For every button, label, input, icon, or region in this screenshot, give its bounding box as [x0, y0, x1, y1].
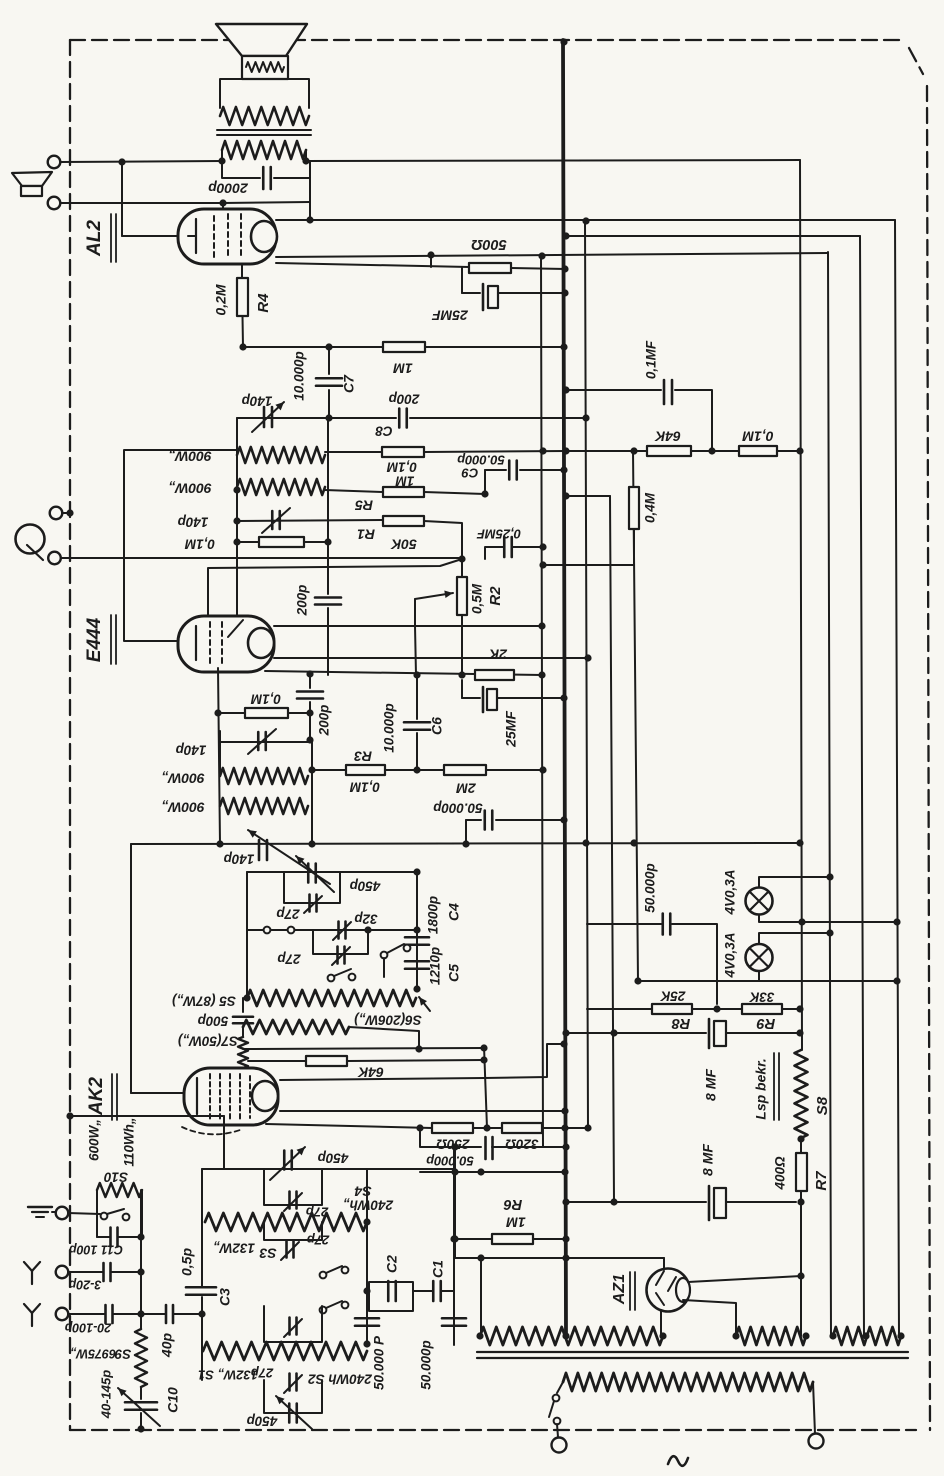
trimmer 140p row3: [248, 729, 276, 754]
capacitor C9 50000p branch: [485, 470, 564, 494]
node lamp1: [798, 918, 900, 925]
svg-text:27p: 27p: [276, 906, 300, 921]
label 320ohm: [505, 1136, 539, 1151]
switch osc pair2: [381, 944, 411, 958]
svg-text:0,5M: 0,5M: [470, 583, 485, 614]
svg-text:S8: S8: [814, 1096, 831, 1115]
capacitor 2000p: [263, 167, 271, 189]
label C6: [429, 717, 445, 735]
terminal antenna 1: [56, 1266, 69, 1279]
label 8MF no1: [703, 1069, 719, 1101]
label 10.000p: [292, 351, 307, 401]
label 450p band1: [318, 1150, 350, 1165]
svg-text:6975W„: 6975W„: [70, 1347, 116, 1361]
label 240Wh S4: [343, 1197, 394, 1212]
wire AL2 nose line y257: [276, 253, 828, 257]
node 2000p anode: [306, 216, 313, 223]
wire 2000p to anode line: [309, 178, 311, 220]
coil 900W no4: [220, 798, 308, 814]
node v455: [451, 1235, 458, 1242]
label 0,5p: [179, 1248, 195, 1276]
wire band v202: [201, 1169, 203, 1380]
node v367: [363, 1218, 370, 1347]
label R5: [355, 497, 373, 513]
coil S3/S4 row: [205, 1213, 367, 1231]
capacitor 8MF no2: [709, 1186, 796, 1220]
label 0,5M: [470, 583, 485, 614]
svg-text:R6: R6: [503, 1196, 522, 1212]
label 132W S3: [213, 1240, 255, 1255]
node e444 626: [538, 622, 545, 629]
svg-text:50.000p: 50.000p: [643, 863, 658, 913]
wire coil row corner: [124, 450, 237, 641]
wire E444 nose y658: [274, 657, 588, 659]
svg-text:S3: S3: [259, 1245, 276, 1261]
node v312: [308, 766, 315, 847]
resistor 64K: [647, 446, 691, 456]
wire band v367: [366, 1169, 368, 1345]
svg-text:AK2: AK2: [86, 1077, 107, 1116]
svg-text:1800p: 1800p: [426, 896, 441, 934]
resistor 320ohm: [502, 1123, 542, 1133]
label 0,1M R3: [349, 779, 380, 794]
node y1172: [451, 1168, 568, 1175]
svg-text:C3: C3: [217, 1288, 233, 1306]
wire coil2 to R5: [325, 490, 383, 492]
svg-text:40-145p: 40-145p: [98, 1370, 113, 1419]
transformer secondary 3: [833, 1327, 901, 1345]
tube AL2 envelope: [178, 209, 277, 264]
wire speaker line 1: [60, 160, 800, 162]
label AK2: [86, 1077, 107, 1116]
tube AK2 cathode: [196, 1078, 198, 1114]
wire osc loop2: [313, 930, 368, 954]
svg-text:R5: R5: [355, 497, 373, 513]
node 200p bottom: [306, 736, 313, 743]
transformer core: [477, 1352, 908, 1358]
wire band loop bottom: [264, 1380, 322, 1413]
svg-text:S6(206W„): S6(206W„): [354, 1012, 422, 1027]
svg-text:1M: 1M: [393, 360, 413, 376]
tube AZ1: [647, 1269, 691, 1312]
label 0,1M row2: [184, 536, 215, 551]
svg-text:C4: C4: [446, 903, 462, 921]
label 3-20p: [68, 1278, 101, 1292]
wire 64K line: [566, 450, 647, 452]
svg-text:140p: 140p: [176, 742, 207, 757]
capacitor 500p: [233, 998, 253, 1037]
svg-text:C6: C6: [429, 717, 445, 735]
svg-text:320Ω: 320Ω: [505, 1136, 539, 1151]
node 01m row2: [233, 538, 331, 545]
svg-text:25MF: 25MF: [432, 307, 469, 323]
label 50.000p band: [419, 1340, 434, 1390]
svg-text:132W„: 132W„: [213, 1240, 255, 1255]
wire band loop S3: [264, 1222, 322, 1240]
label 25MF no2: [503, 711, 519, 748]
wire gramo line y558: [61, 557, 462, 559]
wire R6 line: [454, 1238, 566, 1240]
terminal gramo 1: [50, 507, 63, 520]
label 8MF no2: [700, 1144, 716, 1176]
node ant line: [198, 1310, 205, 1317]
node y675: [306, 670, 545, 678]
svg-text:2000p: 2000p: [208, 180, 249, 196]
label 0,1M cathode: [250, 691, 281, 706]
svg-text:200p: 200p: [389, 391, 421, 406]
node n257: [538, 252, 545, 259]
node tr3: [829, 1332, 904, 1339]
wire R2 wiper: [415, 591, 453, 627]
wire primary left: [557, 1382, 563, 1393]
label 50.000p avc: [433, 800, 483, 815]
svg-text:50.000p: 50.000p: [457, 453, 505, 468]
coil S8: [795, 1050, 808, 1138]
node 25mf: [561, 289, 568, 296]
node tr2: [732, 1332, 809, 1339]
capacitor 50.000p avc: [485, 811, 493, 830]
label 140p row3: [176, 742, 207, 757]
wire main HT bus: [563, 40, 566, 1336]
svg-text:R4: R4: [255, 293, 272, 313]
label S3: [259, 1245, 276, 1261]
wire 04M line y565: [543, 564, 634, 566]
node y451: [539, 447, 569, 454]
svg-text:S4: S4: [354, 1183, 371, 1199]
wire vertical bus v586: [585, 220, 588, 1128]
switch S10: [101, 1209, 130, 1220]
resistor 1M: [383, 342, 425, 352]
svg-text:R2: R2: [487, 586, 504, 606]
wire R2 bottom: [461, 615, 463, 676]
label R9: [757, 1015, 776, 1031]
label 20-100p: [64, 1321, 112, 1335]
svg-text:1M: 1M: [506, 1214, 526, 1230]
coil S6: [243, 1020, 349, 1034]
svg-text:50.000p: 50.000p: [426, 1154, 474, 1169]
capacitor 40p: [141, 1305, 202, 1323]
node tr1: [476, 1332, 666, 1339]
wire 50000p avc: [466, 820, 564, 844]
terminal gramo 2: [48, 552, 61, 565]
wire AK2 line y1111: [280, 1110, 565, 1112]
node 8mf1: [796, 1029, 803, 1036]
label 140p row2: [178, 514, 209, 529]
label S10: [104, 1169, 129, 1184]
resistor 2M: [444, 765, 486, 775]
svg-text:0,1M: 0,1M: [184, 536, 215, 551]
svg-text:10.000p: 10.000p: [382, 703, 397, 753]
svg-text:50.000 P: 50.000 P: [372, 1335, 387, 1390]
wire 01M cath row: [218, 712, 310, 714]
label 900W no1: [168, 448, 212, 464]
svg-text:0,1MF: 0,1MF: [644, 340, 659, 379]
output transformer primary winding: [220, 107, 309, 125]
label R7: [813, 1171, 830, 1191]
node y1111: [561, 1107, 568, 1114]
node v484: [480, 1044, 487, 1063]
svg-text:64K: 64K: [654, 428, 681, 444]
label C3: [217, 1288, 233, 1306]
wire 50000p lamp line: [587, 924, 717, 1004]
label 450p band2: [247, 1413, 279, 1428]
label R2: [487, 586, 504, 606]
wire v312: [311, 742, 313, 844]
gang arrow: [248, 830, 330, 884]
svg-text:E444: E444: [84, 617, 105, 662]
tube E444 grid arm: [228, 620, 243, 637]
switch band pair1: [320, 1266, 349, 1278]
label E444: [84, 617, 105, 662]
svg-text:4V0,3A: 4V0,3A: [723, 869, 738, 915]
svg-text:27p: 27p: [277, 951, 301, 966]
node bus top: [560, 38, 567, 45]
label 25MF: [432, 307, 469, 323]
wire 64K to 01M: [691, 450, 739, 452]
wire heater bus A x=802: [800, 160, 802, 1050]
resistor 0,1M row1: [382, 447, 424, 457]
wire coil1 to R: [325, 451, 382, 453]
trimmer 450p band1: [270, 1147, 305, 1180]
label C5: [446, 964, 462, 982]
svg-text:40p: 40p: [159, 1332, 175, 1358]
wire lamp2 top: [759, 929, 834, 944]
label 140p row4: [224, 851, 255, 866]
wire v328: [327, 418, 329, 542]
node cath row: [214, 709, 313, 716]
coil S9: [135, 1329, 147, 1387]
capacitor 27p no2: [332, 947, 350, 966]
resistor 0,4M: [629, 487, 639, 529]
resistor R9 33K: [742, 1004, 782, 1014]
label S2 240Wh: [308, 1371, 373, 1386]
capacitor C11 100p: [97, 1228, 141, 1247]
label 0,1M right: [742, 428, 773, 444]
svg-text:0,5p: 0,5p: [179, 1248, 195, 1276]
wire osc sw vert: [383, 958, 385, 977]
coil S5 87W: [247, 990, 416, 1006]
svg-text:450p: 450p: [350, 878, 382, 893]
terminal mains 1: [552, 1438, 567, 1453]
wire line y521: [237, 520, 383, 521]
svg-text:900W„: 900W„: [161, 799, 205, 815]
label 450p pad: [350, 878, 382, 893]
label 4V0.3A no2: [723, 932, 738, 978]
label 50.000p C9: [457, 453, 505, 468]
label mains ~: [668, 1456, 688, 1466]
node 25mf2: [560, 694, 567, 701]
node s8 bottom: [797, 1135, 804, 1142]
svg-text:S5 (87W„): S5 (87W„): [172, 993, 236, 1008]
label 1M R5: [395, 473, 415, 488]
wire line y1202: [566, 1201, 706, 1203]
wire S9 to C10: [140, 1387, 142, 1399]
wire heater bus B x=830: [828, 252, 831, 1336]
label AL2: [84, 220, 105, 257]
svg-text:200p: 200p: [317, 705, 332, 737]
capacitor C3 0,5p: [186, 1287, 216, 1295]
wire S10 loop: [97, 1190, 142, 1237]
tube AK2 shield arc: [182, 1127, 240, 1134]
node 1202: [562, 1198, 617, 1205]
svg-text:600W„: 600W„: [87, 1119, 102, 1161]
node AL2 top cap: [219, 199, 226, 206]
svg-text:0,2M: 0,2M: [213, 284, 229, 315]
label 0,4M: [643, 492, 658, 523]
label 500ohm: [471, 236, 507, 252]
label S7 50W: [177, 1033, 238, 1048]
svg-text:C8: C8: [375, 423, 393, 438]
label 900W no2: [168, 480, 212, 496]
svg-text:240Wh„: 240Wh„: [343, 1197, 394, 1212]
label C9: [461, 466, 478, 481]
label 27p no2: [277, 951, 301, 966]
resistor 500ohm: [469, 263, 511, 273]
tube AL2 cathode: [188, 219, 196, 253]
wire S6 right: [349, 1027, 419, 1049]
wire line y1172: [420, 1171, 565, 1173]
svg-text:S7(50W„): S7(50W„): [177, 1033, 238, 1048]
label 0,1M row1: [386, 459, 417, 474]
wire ground to S10: [68, 1213, 100, 1214]
capacitor C5 1210p: [405, 961, 429, 969]
wire E444 bottom line y675: [265, 671, 542, 675]
svg-text:0,1M: 0,1M: [742, 428, 773, 444]
wire vertical bus v614: [610, 496, 614, 1202]
coil 900W no2: [237, 479, 325, 495]
wire line y1033: [566, 1032, 706, 1034]
wire primary right: [813, 1382, 815, 1434]
label 0.2M: [213, 284, 229, 315]
label 140p row1: [242, 393, 273, 408]
wire AZ1 bottom: [660, 1310, 662, 1336]
wire R1 right: [424, 521, 462, 559]
label AZ1 underline: [630, 1272, 635, 1310]
svg-text:110Wh„: 110Wh„: [122, 1117, 137, 1166]
capacitor 2000p loop: [222, 161, 310, 178]
label R8: [671, 1015, 690, 1031]
wire output transformer loop: [220, 79, 309, 108]
lamp 4V0.3A no1: [746, 888, 773, 915]
resistor 0,1M cathode: [245, 708, 288, 718]
svg-text:S10: S10: [104, 1169, 129, 1184]
label 64K: [654, 428, 681, 444]
trimmer 140p row4: [259, 840, 267, 860]
node 025mf: [539, 543, 546, 550]
wire v455: [454, 1147, 456, 1258]
svg-text:8 MF: 8 MF: [703, 1069, 719, 1101]
resistor R4 0.2M: [237, 278, 248, 316]
wire line y742: [220, 741, 312, 743]
svg-text:64K: 64K: [357, 1064, 384, 1080]
wire AL2 cathode stub: [241, 264, 243, 278]
terminal mains 2: [809, 1434, 824, 1449]
svg-text:25MF: 25MF: [503, 711, 519, 748]
wire 01M right y451: [424, 451, 566, 452]
tube AK2 grids: [210, 1074, 250, 1120]
node az1 right: [797, 1272, 804, 1279]
wire v224: [223, 1116, 225, 1169]
label 110Wh: [122, 1117, 137, 1166]
label 4V0.3A no1: [723, 869, 738, 915]
label 25K: [659, 988, 686, 1003]
resistor R7 400ohm: [796, 1153, 807, 1191]
wire v237 down: [236, 487, 238, 617]
terminal speaker 1: [48, 156, 61, 169]
wire 500ohm right: [511, 268, 566, 269]
node gramo chassis: [66, 509, 73, 516]
label 900W no4: [161, 799, 205, 815]
node y1049: [415, 1045, 422, 1052]
svg-text:AL2: AL2: [84, 220, 105, 257]
wire lamp1 top: [759, 873, 834, 888]
switch band pair2: [320, 1301, 349, 1313]
label S9: [114, 1346, 131, 1361]
svg-text:500Ω: 500Ω: [471, 236, 507, 252]
svg-text:Lsp bekr.: Lsp bekr.: [753, 1058, 769, 1119]
capacitor 27p S4: [284, 1192, 302, 1212]
wire osc rail y930: [247, 929, 417, 931]
label C8: [375, 423, 393, 438]
capacitor 50.000p ak2: [486, 1137, 493, 1159]
node speaker line: [118, 158, 125, 165]
node r6: [562, 1235, 569, 1242]
label 200p grid: [295, 585, 310, 617]
wire band loop S4: [264, 1169, 322, 1205]
capacitor 27p S1: [284, 1318, 302, 1338]
label AZ1: [611, 1274, 628, 1305]
label 50.000 P: [372, 1335, 387, 1390]
trimmer 450p pad: [296, 856, 334, 892]
svg-text:R1: R1: [357, 526, 375, 542]
wire band loop S1: [264, 1306, 322, 1342]
label Lsp underline: [774, 1053, 779, 1120]
svg-text:0,4M: 0,4M: [643, 492, 658, 523]
svg-text:R3: R3: [354, 748, 372, 764]
node 1033: [562, 1029, 617, 1036]
label 32p: [354, 911, 377, 926]
svg-text:140p: 140p: [224, 851, 255, 866]
node s5: [243, 985, 420, 1001]
capacitor 200p grid: [315, 542, 341, 675]
wire R2 top: [461, 559, 463, 577]
capacitor 0,1MF: [664, 380, 672, 404]
label 1M R6: [506, 1214, 526, 1230]
node c9 junction: [481, 490, 488, 497]
svg-text:32p: 32p: [354, 911, 377, 926]
wire E444 cathode stub: [218, 668, 220, 844]
label 2K: [488, 646, 508, 662]
svg-text:450p: 450p: [247, 1413, 279, 1428]
wire AK2 line y1128: [266, 1124, 588, 1128]
wire line y1049: [243, 1048, 484, 1049]
capacitor 50000p band2: [442, 1318, 466, 1326]
gramophone pickup symbol: [16, 525, 45, 561]
node r7 bottom: [797, 1198, 804, 1205]
wire feedback vert x131: [131, 844, 184, 1093]
wire v481: [480, 1258, 482, 1336]
label 40-145p: [98, 1370, 113, 1419]
svg-text:1M: 1M: [395, 473, 415, 488]
svg-text:0,25MF: 0,25MF: [476, 527, 521, 542]
svg-text:C2: C2: [384, 1255, 400, 1273]
svg-text:50K: 50K: [390, 536, 417, 552]
transformer secondary 1: [480, 1327, 663, 1345]
svg-text:0,1M: 0,1M: [250, 691, 281, 706]
tube AL2 grids: [214, 214, 241, 259]
svg-text:500p: 500p: [198, 1013, 229, 1028]
coil 900W no3: [220, 768, 308, 784]
